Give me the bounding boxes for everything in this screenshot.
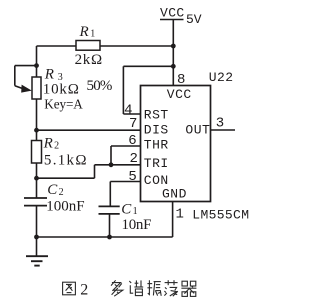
svg-text:5.1kΩ: 5.1kΩ: [44, 152, 88, 168]
svg-text:7: 7: [129, 116, 137, 132]
svg-text:2: 2: [54, 141, 59, 152]
svg-text:R: R: [79, 24, 89, 40]
svg-text:LM555CM: LM555CM: [192, 208, 249, 223]
svg-text:VCC: VCC: [160, 6, 185, 21]
svg-text:RST: RST: [144, 108, 169, 123]
svg-text:100nF: 100nF: [46, 198, 84, 214]
svg-text:1: 1: [90, 28, 95, 39]
svg-text:1: 1: [176, 206, 184, 222]
svg-text:R: R: [43, 135, 53, 151]
svg-text:2kΩ: 2kΩ: [75, 52, 103, 68]
svg-text:TRI: TRI: [144, 156, 169, 171]
svg-text:VCC: VCC: [167, 87, 192, 102]
svg-text:2: 2: [59, 187, 64, 198]
svg-text:U22: U22: [209, 70, 234, 85]
svg-text:R: R: [44, 67, 54, 83]
svg-text:3: 3: [216, 116, 224, 132]
svg-text:DIS: DIS: [144, 122, 169, 137]
svg-text:C: C: [121, 202, 132, 218]
svg-text:10nF: 10nF: [122, 217, 152, 233]
svg-text:5: 5: [128, 169, 136, 185]
svg-text:Key=A: Key=A: [44, 96, 83, 111]
svg-text:THR: THR: [144, 137, 169, 152]
svg-text:2: 2: [130, 151, 138, 167]
svg-text:GND: GND: [162, 186, 187, 201]
svg-text:50%: 50%: [87, 78, 112, 94]
svg-text:C: C: [47, 182, 58, 198]
svg-text:10kΩ: 10kΩ: [43, 81, 80, 97]
svg-text:1: 1: [133, 206, 138, 217]
svg-text:8: 8: [177, 72, 185, 88]
svg-text:OUT: OUT: [185, 122, 210, 137]
svg-text:6: 6: [128, 133, 136, 149]
svg-text:3: 3: [58, 72, 63, 83]
svg-text:5V: 5V: [186, 12, 202, 27]
svg-text:2: 2: [80, 282, 88, 299]
